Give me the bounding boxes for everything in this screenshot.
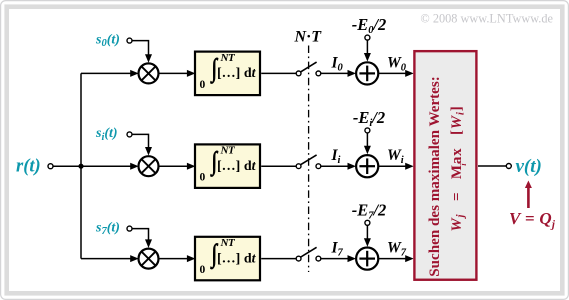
sampling dash-dot line [308,46,310,273]
svg-text:s0(t): s0(t) [95,32,120,49]
wire multiplier to integrator 7 [159,258,188,260]
svg-text:[…] dt: […] dt [217,66,257,81]
multiplier M7 [139,249,159,269]
wire to multiplier 7 [81,258,132,260]
wire multiplier to integrator i [159,165,188,167]
wire -E_7/2 to adder [366,225,368,239]
junction dot [78,164,83,169]
multiplier M0 [139,63,159,83]
svg-text:NT: NT [220,145,237,157]
svg-text:0: 0 [200,264,206,276]
svg-text:0: 0 [200,172,206,184]
integrator block 0 [195,52,260,96]
svg-text:NT: NT [220,237,237,249]
decision box U1: Suchen des maximalen Wertes [414,51,476,280]
switch S0 [296,62,321,76]
wire s_i to multiplier [132,134,148,148]
svg-text:V = Qj: V = Qj [509,209,556,231]
wire switch to adder 0 / node I_0 [321,72,348,74]
wire -E_0/2 to adder [366,40,368,54]
svg-text:Wj = Max [Wi]: Wj = Max [Wi] [449,105,467,231]
wire switch to adder i / node I_i [321,165,348,167]
wire adder to decision box / node W_0 [379,72,406,74]
wire to multiplier i [81,165,132,167]
svg-text:NT: NT [220,52,237,64]
svg-text:0: 0 [200,79,206,91]
multiplier Mi [139,156,159,176]
switch S7 [296,247,321,261]
wire integrator to switch 7 [261,258,296,260]
wire -E_i/2 to adder [366,133,368,147]
svg-text:-Ei/2: -Ei/2 [353,108,385,129]
wire s_0 to multiplier [132,41,148,56]
wire switch to adder 7 / node I_7 [321,258,348,260]
svg-text:s7(t): s7(t) [95,220,120,237]
wire adder to decision box / node W_7 [379,258,406,260]
wire integrator to switch i [261,165,296,167]
wire decision box to output v(t) [478,165,506,167]
adder Ai [356,155,378,177]
svg-text:Suchen des maximalen Wertes:: Suchen des maximalen Wertes: [427,76,443,277]
wire to multiplier 0 [81,72,132,74]
svg-text:si(t): si(t) [95,126,118,143]
wire s_7 to multiplier [132,229,148,241]
svg-text:N·T: N·T [294,29,323,46]
adder A0 [356,62,378,84]
integrator block i [195,144,260,188]
adder A7 [356,248,378,270]
svg-text:r(t): r(t) [16,157,41,177]
wire input to junction [53,165,81,167]
arrow V to v(t) [527,187,530,208]
svg-text:v(t): v(t) [516,156,542,177]
wire adder to decision box / node W_i [379,165,406,167]
svg-text:© 2008 www.LNTwww.de: © 2008 www.LNTwww.de [420,12,553,26]
integrator block 7 [195,237,260,280]
switch Si [296,155,321,169]
svg-text:[…] dt: […] dt [217,251,257,266]
wire multiplier to integrator 0 [159,72,188,74]
wire integrator to switch 0 [261,72,296,74]
svg-text:[…] dt: […] dt [217,159,257,174]
wire vertical bus [80,73,82,258]
